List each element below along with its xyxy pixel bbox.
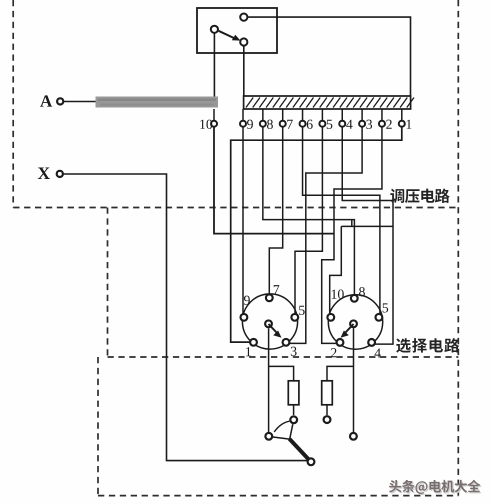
wire branch to resistor R1 [269,366,294,380]
tap terminal 9 label [247,120,253,129]
tap terminal 8 [260,121,266,127]
rotary SA pin 3 [283,339,290,346]
rotary SB pin 10 label [332,290,337,299]
rotary switch SB body [328,295,382,349]
rotary SA pin 7 [266,294,273,301]
knife K1 contact link [290,424,293,439]
rotary SB pin 8 [351,295,358,302]
tap terminal 3 label [366,120,372,129]
knife K1 blade end terminal [308,458,315,465]
tap terminal 7 [280,121,286,127]
rotary switch SA body [242,294,297,349]
tap terminal 10 label [200,120,205,129]
tap terminal 9 [240,121,246,127]
wire bus to rotary B pin10 [330,226,342,315]
tap terminal 6 [300,121,306,127]
rotary SA pin 3 label [291,347,297,356]
rotary SB pin 2 label [331,348,337,357]
tap terminal 6 label [307,120,313,129]
tap terminal 5 label [327,120,333,129]
rotary SA pin 1 [250,339,257,346]
knife K1 fixed contact [290,416,297,423]
tap terminal 2 label [386,120,392,129]
tap terminal 7 tick [282,109,284,120]
rotary SA pin 1 label [246,347,251,356]
wire rotary SB wiper down to switch K2 [353,328,355,432]
tap terminal 1 label [407,120,412,129]
rotary SA pin 9 label [244,296,250,305]
wire R1 to contact [293,405,295,415]
rotary SA wiper pin [265,320,272,327]
wire R2 to contact [326,405,328,415]
tap terminal 7 label [287,120,293,129]
rotary SB pin 10 [327,314,334,321]
resistor R2 [322,381,333,405]
switch K2 fixed contact [324,416,331,423]
tap terminal 8 label [267,120,273,129]
resistor R1 [288,381,299,405]
wire A to rheostat [64,101,96,103]
tap terminal 2 [379,121,385,127]
wire rotary SA wiper down to knife pivot [268,328,270,432]
rotary SB pin 8 label [359,287,365,296]
调压电路 box left dashed border [12,0,14,208]
wire tap9 to rotary A pin9 [242,127,244,315]
tap terminal 4 label [346,120,352,129]
watermark 头条@电机大全 shadow [390,481,402,494]
wire tap6 to rotary B pin6 [303,127,380,315]
outer right dashed border [457,0,459,496]
wire tap10 bus [214,127,334,234]
S1 lower contact [240,38,247,45]
rotary SB pin 6 [376,314,383,321]
knife K1 pivot [265,433,272,440]
tap terminal 1 tick [401,109,403,120]
tap terminal 5 [319,121,325,127]
wire tap7 to rotary A pin7 [269,127,282,296]
rotary SA pin 5 [291,314,298,321]
rotary SB wiper pin [350,320,357,327]
wire tap3 to rotary A pin3 [288,127,362,344]
bottom dashed border [98,495,458,497]
terminal A [57,98,63,104]
knife K1 blade [289,439,309,461]
terminal A label [40,95,52,106]
S1 top contact [240,14,247,21]
knife K1 throw arc [274,421,289,432]
tap terminal 8 tick [262,109,264,120]
S1 pole contact [211,26,218,33]
rheostat gray bar [96,97,219,108]
rotary SA pin 9 [241,314,248,321]
rotary SA pin 5 label [299,306,305,315]
tap terminal 9 tick [242,109,244,120]
tap terminal 4 tick [341,109,343,120]
label 选择电路 [396,338,411,353]
switch S1 box [197,8,277,53]
wire jog tap8 bus to lower bus [351,220,353,227]
label 调压电路 [390,189,404,203]
tap terminal 5 tick [321,109,323,120]
wire tap5 to rotary A pin5 [295,127,322,315]
tap terminal 2 tick [381,109,383,120]
knife K1 pivot link [273,437,291,439]
rotary SB pin 2 [337,339,344,346]
tap terminal 3 [359,121,365,127]
wire tap4 to rotary B pin4 [342,127,393,344]
switch K2 open terminal [350,433,357,440]
wire S1 lower contact down [243,44,245,97]
terminal X label [38,168,50,179]
选择电路 box left dashed border [107,208,109,358]
watermark 头条@电机大全 [389,480,401,493]
tap terminal 4 [339,121,345,127]
选择电路 bottom dashed separator [108,356,459,358]
tap terminal 3 tick [361,109,363,120]
rotary SA wiper arrow [269,324,277,333]
wire S1 top contact to right bus [248,17,411,96]
tap terminal 10 tick [213,109,215,120]
rotary SA pin 7 label [274,285,280,294]
bottom box left dashed border [97,357,99,496]
rotary SB pin 4 [368,339,375,346]
wire bus to rotary B pin4 riser [341,225,393,227]
S1 wiper arrow [219,31,237,39]
wire X to knife switch [63,174,308,461]
wire branch to resistor R2 [327,366,354,380]
调压电路/选择电路 dashed separator [13,207,458,209]
rotary SB pin 4 label [374,349,380,358]
wire tap8 to rotary B pin8 [263,127,355,296]
rotary SB pin 5 label [383,303,389,312]
wire tap1 to rotary A pin1 [231,127,402,342]
tap terminal 10 [211,121,217,127]
rotary SB wiper arrow [346,324,354,333]
terminal X [57,171,63,177]
wire S1 left pole down [213,31,215,97]
tap terminal 6 tick [302,109,304,120]
tapped resistor hatched bar [244,96,411,109]
wire tap2 to rotary B pin2 [322,127,382,344]
tap terminal 1 [399,121,405,127]
